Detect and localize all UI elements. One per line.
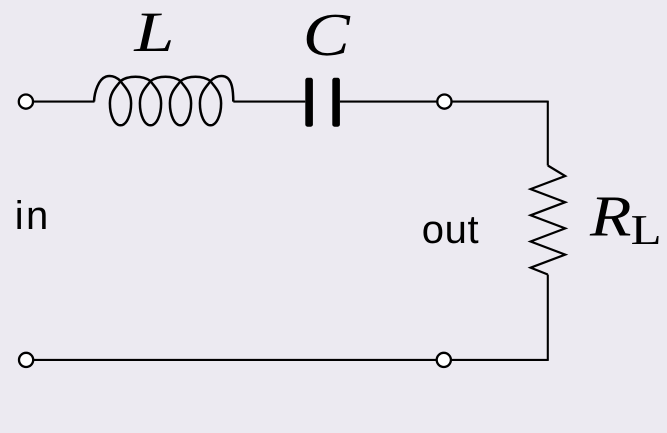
resistor R_L	[531, 166, 566, 275]
svg-text:C: C	[303, 2, 352, 69]
wire: capacitor to top-right corner	[340, 101, 548, 103]
svg-text:in: in	[15, 194, 51, 238]
wire top: input terminal to inductor	[26, 101, 95, 103]
wire: inductor to capacitor	[233, 101, 305, 103]
output node bottom	[437, 353, 451, 367]
inductor L	[94, 76, 233, 125]
label R_L	[589, 184, 662, 254]
svg-text:R: R	[589, 184, 632, 249]
capacitor C plate 2	[332, 78, 340, 127]
svg-text:L: L	[631, 207, 662, 254]
wire: right vertical top (corner to resistor)	[547, 101, 549, 166]
input terminal bottom (node)	[19, 353, 33, 367]
wire: right vertical bottom (resistor to corner)	[547, 275, 549, 361]
svg-text:out: out	[422, 208, 479, 252]
capacitor C plate 1	[305, 78, 313, 127]
svg-text:L: L	[133, 1, 174, 64]
wire bottom: right corner to input terminal	[26, 359, 548, 361]
input terminal top (node)	[19, 95, 33, 109]
output node top	[437, 95, 451, 109]
